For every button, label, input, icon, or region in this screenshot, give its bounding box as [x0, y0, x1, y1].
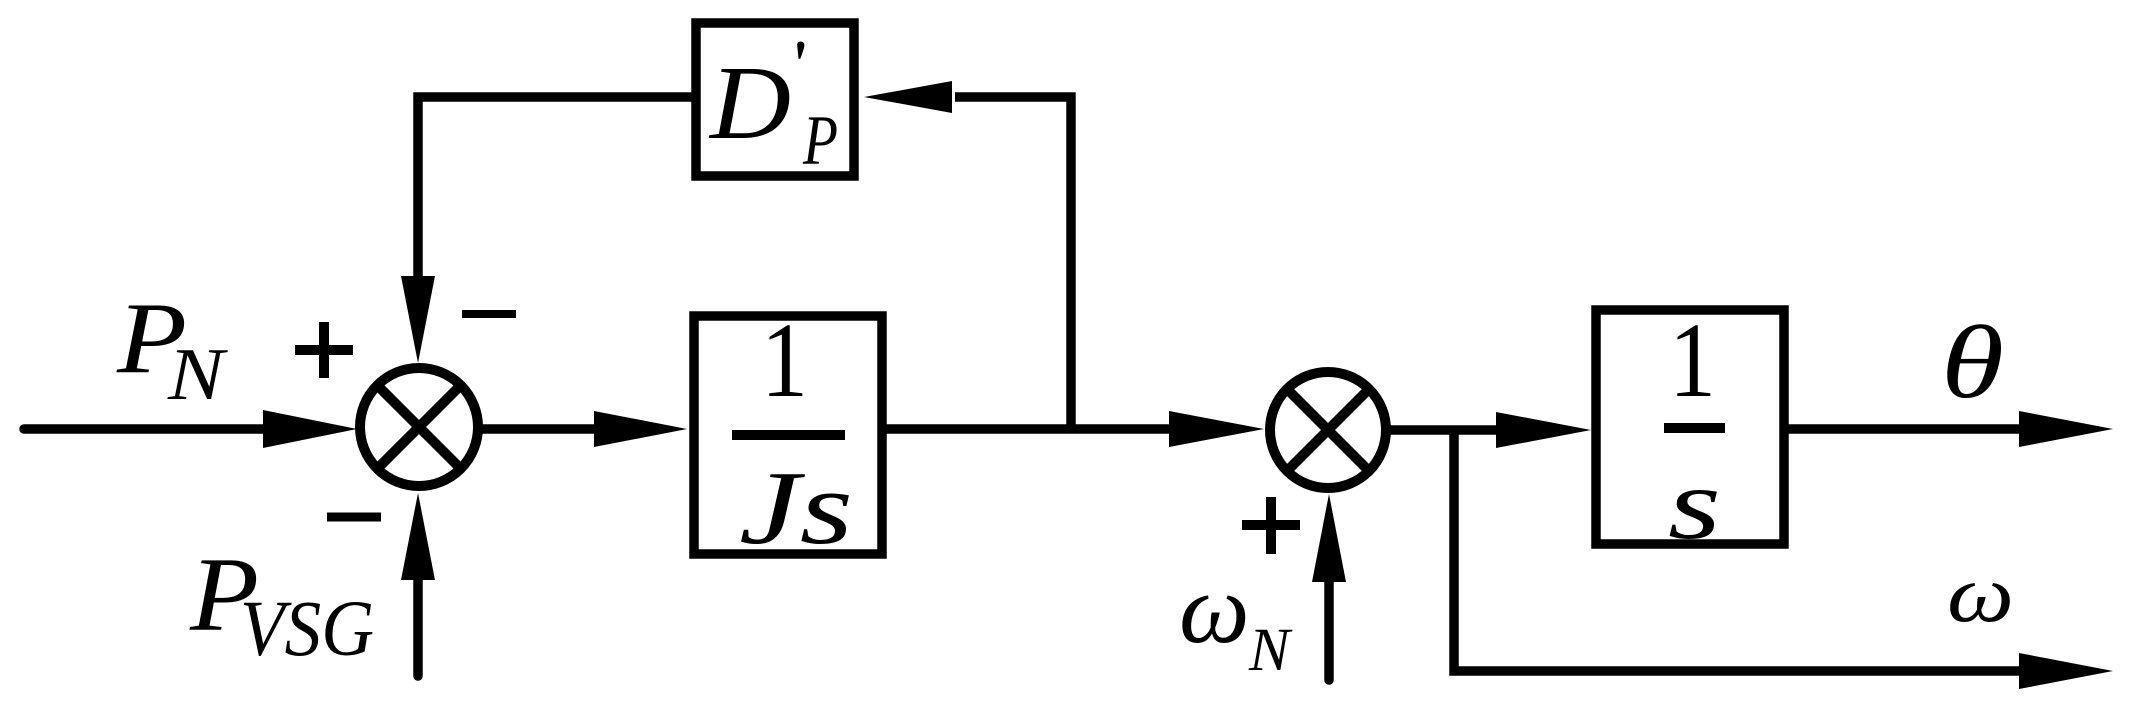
- block 1/s: [1596, 310, 1784, 544]
- block D_P': [696, 23, 854, 176]
- wire: branch down to ω output: [1454, 430, 2025, 671]
- fraction bar of 1/Js: [732, 430, 845, 440]
- arrowhead: ω_N into S2: [1312, 494, 1346, 582]
- svg-text:Js: Js: [739, 449, 853, 566]
- node: branch point to D_P feedback: [955, 97, 1071, 429]
- svg-text:ω: ω: [1179, 553, 1250, 664]
- plus sign (ω_N polarity): [1242, 497, 1300, 554]
- arrowhead: into 1/Js: [594, 411, 687, 447]
- arrowhead: ω output: [2019, 653, 2113, 689]
- svg-text:N: N: [1248, 617, 1293, 684]
- svg-text:1: 1: [1669, 302, 1716, 420]
- plus sign (P_N polarity): [295, 322, 353, 378]
- prime mark of D_P': [797, 42, 804, 59]
- label ω_N: [1179, 553, 1293, 684]
- svg-text:1: 1: [761, 302, 808, 420]
- arrowhead: θ output: [2019, 411, 2113, 447]
- wire: 1/s output to θ: [1784, 424, 2025, 434]
- svg-text:s: s: [1668, 448, 1721, 561]
- svg-text:VSG: VSG: [240, 586, 374, 673]
- svg-text:ω: ω: [1947, 548, 2014, 639]
- label θ: [1941, 305, 2004, 420]
- arrowhead: P_N into summing junction S1: [263, 410, 357, 448]
- arrowhead: into 1/s: [1496, 412, 1591, 448]
- svg-text:D: D: [708, 44, 791, 161]
- svg-text:P: P: [802, 102, 838, 180]
- wire: S1 output to 1/Js: [482, 424, 600, 434]
- minus sign (P_VSG polarity): [327, 513, 381, 522]
- label P_N: [116, 282, 228, 416]
- arrowhead: P_VSG into S1: [401, 493, 435, 580]
- summing junction S1: [360, 368, 478, 486]
- minus sign (D_P feedback polarity): [462, 310, 516, 318]
- summing junction S2: [1270, 372, 1386, 488]
- wire: P_N input: [24, 424, 268, 434]
- arrowhead: D_P feedback into S1 top: [401, 276, 435, 363]
- wire: S2 output to 1/s: [1384, 425, 1500, 435]
- svg-text:θ: θ: [1941, 305, 2004, 420]
- wire: ω_N input: [1324, 578, 1334, 680]
- wire: D_P output to corner and down into S1: [418, 97, 696, 280]
- arrowhead: into S2: [1169, 411, 1264, 447]
- block 1/Js: [694, 316, 882, 554]
- fraction bar of 1/s: [1664, 423, 1725, 433]
- wire: P_VSG input: [413, 576, 423, 676]
- label ω: [1947, 548, 2014, 639]
- label P_VSG: [189, 536, 374, 673]
- arrowhead: into D_P block: [864, 81, 952, 113]
- wire: 1/Js output to S2: [882, 424, 1175, 434]
- svg-text:N: N: [167, 334, 228, 416]
